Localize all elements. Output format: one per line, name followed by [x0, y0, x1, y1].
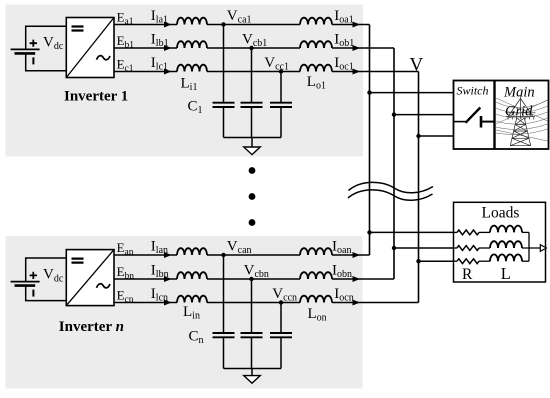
- battery Vdc (1) long plate: [11, 48, 40, 50]
- inductor L_in phase c: [177, 296, 207, 303]
- bus phase a vertical: [369, 25, 371, 256]
- svg-text:R: R: [462, 266, 473, 283]
- node V_cb1 junction: [249, 46, 253, 50]
- continuation dot 2: [249, 193, 256, 200]
- wire bus a to switch box: [370, 92, 454, 94]
- wire I_oan to bus phase a: [332, 254, 370, 256]
- inductor L_in phase a: [177, 248, 207, 255]
- svg-text:Inverter n: Inverter n: [59, 319, 124, 335]
- wire V_ca1 node segment phase a: [207, 24, 300, 26]
- wire to ground (top section): [251, 138, 253, 148]
- switch and main grid box: [454, 81, 549, 150]
- battery plus sign: [30, 40, 37, 47]
- junction bus a to switch: [367, 90, 371, 94]
- loads branch a out wire: [522, 231, 529, 233]
- junction bus a to loads: [367, 230, 371, 234]
- node V_ccn junction: [279, 300, 283, 304]
- wire Eb1 from inverter to L_i1 phase b: [114, 47, 177, 49]
- wire node V_cc1 to capacitor C1 phase c: [280, 72, 282, 103]
- loads branch c entry wire: [454, 260, 458, 262]
- current arrow I_lb1: [164, 45, 172, 51]
- svg-text:Grid: Grid: [505, 104, 533, 120]
- resistor R load phase a: [457, 230, 479, 235]
- loads branch c out wire: [522, 260, 529, 262]
- wire Ean from inverter to L_in phase a: [114, 254, 177, 256]
- wire capacitor common rail (top section): [224, 137, 282, 139]
- loads output arrow: [540, 245, 546, 252]
- svg-text:Main: Main: [503, 85, 535, 101]
- main grid catenary wires: [496, 98, 548, 141]
- wire Ecn from inverter to L_in phase c: [114, 302, 177, 304]
- capacitor C1 phase b plates: [241, 103, 263, 107]
- inverter n panel background: [6, 236, 363, 389]
- inverter U1 diagonal: [66, 18, 114, 78]
- loads branch c mid wire: [479, 260, 490, 262]
- wire I_ob1 to bus phase b: [332, 47, 394, 49]
- inverter 1 panel background: [6, 5, 364, 157]
- node V_can junction: [221, 253, 225, 257]
- capacitor C1 phase c plates: [270, 103, 292, 107]
- node V_cc1 junction: [279, 69, 283, 73]
- inductor L_on phase a: [300, 248, 332, 255]
- junction bus c to loads: [416, 259, 420, 263]
- wire battery+ to inverter 1 DC input: [26, 26, 67, 49]
- wire bus b to switch box: [394, 114, 454, 116]
- inductor L_o1 phase c: [300, 65, 332, 72]
- inductor L_o1 phase a: [300, 18, 332, 25]
- loads branch a entry wire: [454, 231, 458, 233]
- wire I_ocn to bus phase c: [332, 302, 419, 304]
- wire battery- to inverter n DC return: [26, 286, 67, 301]
- inverter U1 DC symbol =: [72, 27, 84, 31]
- inverter Un AC symbol ~: [97, 284, 111, 288]
- wire to ground (bottom section): [251, 369, 253, 376]
- wire V_can node segment phase a: [207, 254, 300, 256]
- wire bus a to loads box: [370, 231, 454, 233]
- bus break wave upper: [349, 182, 434, 192]
- svg-text:V: V: [410, 55, 424, 76]
- node V_ca1 junction: [221, 22, 225, 26]
- loads branch b entry wire: [454, 247, 458, 249]
- battery Vdc (n) long plate: [11, 281, 40, 283]
- svg-text:Inverter 1: Inverter 1: [64, 88, 128, 104]
- wire Ebn from inverter to L_in phase b: [114, 278, 177, 280]
- inductor L load phase a: [490, 226, 522, 233]
- wire bus b to loads box: [394, 247, 454, 249]
- junction bus c to switch: [416, 134, 420, 138]
- inductor L load phase b: [490, 241, 522, 248]
- inductor L_i1 phase b: [177, 41, 207, 48]
- current arrow I_oan: [353, 252, 361, 258]
- wire I_oa1 to bus phase a: [332, 24, 370, 26]
- inductor L_i1 phase a: [177, 18, 207, 25]
- inductor L_on phase b: [300, 272, 332, 279]
- battery minus tick: [32, 290, 34, 297]
- wire V_cbn node segment phase b: [207, 278, 300, 280]
- wire node V_ca1 to capacitor C1 phase a: [223, 25, 225, 103]
- switch/grid divider: [493, 81, 495, 150]
- wire Ec1 from inverter to L_i1 phase c: [114, 71, 177, 73]
- wire I_oc1 to bus phase c: [332, 71, 419, 73]
- loads branch b out wire: [522, 247, 541, 249]
- current arrow I_lc1: [164, 69, 172, 75]
- inverter U1 AC symbol ~: [97, 56, 111, 60]
- svg-text:Loads: Loads: [482, 204, 520, 221]
- loads branch a mid wire: [479, 231, 490, 233]
- loads branch b mid wire: [479, 247, 490, 249]
- wire V_cb1 node segment phase b: [207, 47, 300, 49]
- junction bus b to switch: [392, 112, 396, 116]
- inductor L load phase c: [490, 254, 522, 261]
- wire capacitor Cn phase b to common: [251, 337, 253, 368]
- svg-text:L: L: [501, 264, 511, 283]
- main grid transmission tower: [506, 97, 536, 146]
- wire bus c to switch box: [419, 135, 454, 137]
- ground symbol (top section): [244, 147, 260, 155]
- bus break wave lower: [348, 190, 433, 200]
- loads box: [454, 202, 546, 282]
- battery Vdc (n) short plate: [15, 284, 36, 287]
- wire bus c to loads box: [419, 260, 454, 262]
- inverter Un box: [66, 250, 114, 306]
- wire battery- to inverter 1 DC return: [26, 53, 67, 70]
- battery plus sign: [30, 272, 37, 279]
- ground symbol (bottom section): [244, 376, 260, 384]
- wire node V_can to capacitor Cn phase a: [223, 255, 225, 333]
- bus phase c vertical: [418, 72, 420, 303]
- wire V_ccn node segment phase c: [207, 302, 300, 304]
- capacitor Cn phase b plates: [241, 333, 263, 337]
- bus phase b vertical: [393, 48, 395, 279]
- inductor L_i1 phase c: [177, 65, 207, 72]
- wire capacitor C1 phase b to common: [251, 107, 253, 138]
- wire V_cc1 node segment phase c: [207, 71, 300, 73]
- current arrow I_obn: [353, 276, 361, 282]
- loads common vertical: [528, 232, 530, 261]
- current arrow I_oa1: [353, 22, 361, 28]
- continuation dot 3: [249, 219, 256, 226]
- wire I_obn to bus phase b: [332, 278, 394, 280]
- current arrow I_lcn: [164, 300, 172, 306]
- inductor L_in phase b: [177, 272, 207, 279]
- current arrow I_lan: [164, 252, 172, 258]
- current arrow I_lbn: [164, 276, 172, 282]
- capacitor Cn phase a plates: [213, 333, 235, 337]
- wire battery+ to inverter n DC input: [26, 258, 67, 282]
- junction bus b to loads: [392, 246, 396, 250]
- inverter Un diagonal: [66, 250, 114, 306]
- inverter Un DC symbol =: [72, 259, 84, 263]
- switch S1 symbol: [454, 121, 468, 123]
- inductor L_o1 phase b: [300, 41, 332, 48]
- current arrow I_oc1: [353, 69, 361, 75]
- continuation dot 1: [249, 167, 256, 174]
- inductor L_on phase c: [300, 296, 332, 303]
- wire capacitor C1 phase a to common: [223, 107, 225, 138]
- wire node V_ccn to capacitor Cn phase c: [280, 303, 282, 334]
- wire capacitor Cn phase c to common: [280, 337, 282, 368]
- resistor R load phase b: [457, 246, 479, 251]
- current arrow I_la1: [164, 22, 172, 28]
- battery Vdc (1) short plate: [15, 52, 36, 55]
- wire Ea1 from inverter to L_i1 phase a: [114, 24, 177, 26]
- capacitor C1 phase a plates: [213, 103, 235, 107]
- capacitor Cn phase c plates: [270, 333, 292, 337]
- wire capacitor common rail (bottom section): [224, 368, 282, 370]
- node V_cbn junction: [249, 277, 253, 281]
- wire node V_cb1 to capacitor C1 phase b: [251, 48, 253, 103]
- resistor R load phase c: [457, 259, 479, 264]
- current arrow I_ocn: [353, 300, 361, 306]
- svg-text:Switch: Switch: [457, 84, 489, 98]
- wire capacitor C1 phase c to common: [280, 107, 282, 138]
- wire node V_cbn to capacitor Cn phase b: [251, 279, 253, 333]
- wire capacitor Cn phase a to common: [223, 337, 225, 368]
- current arrow I_ob1: [353, 45, 361, 51]
- inverter U1 box: [66, 18, 114, 78]
- battery minus tick: [32, 57, 34, 64]
